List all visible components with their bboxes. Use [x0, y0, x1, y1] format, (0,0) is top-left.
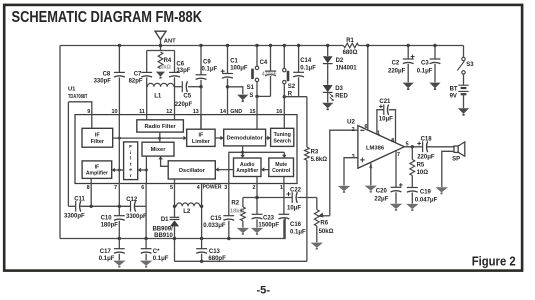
svg-text:10: 10 — [112, 109, 118, 115]
svg-text:C4: C4 — [260, 60, 268, 66]
wire U2 pin7 to C20 — [395, 151, 397, 187]
svg-text:7: 7 — [397, 152, 400, 158]
ground U2 pin4 — [365, 186, 377, 191]
wire pin10 internal column — [118, 115, 120, 170]
wire R6 wiper to U2 pin2 — [330, 130, 358, 216]
svg-text:Limiter: Limiter — [192, 139, 211, 145]
svg-text:82pF: 82pF — [129, 79, 143, 85]
wire pin 8 column — [90, 178, 92, 206]
wire pin 7 column — [118, 170, 120, 216]
wire top supply rail — [60, 45, 464, 47]
junction S2/pin16 node — [283, 95, 286, 98]
svg-text:BB910: BB910 — [154, 233, 173, 239]
svg-text:IF: IF — [95, 132, 101, 138]
wire Oscillator to Mixer — [158, 156, 168, 166]
svg-text:C13: C13 — [209, 249, 221, 255]
resistor R1 — [343, 38, 359, 56]
svg-text:C19: C19 — [420, 189, 432, 195]
capacitor C13 — [196, 239, 226, 263]
wire S1 node to C4 — [257, 95, 271, 97]
wire U2 pin3 to ground — [344, 158, 358, 186]
svg-text:RED: RED — [335, 94, 348, 100]
svg-text:S2: S2 — [288, 84, 296, 90]
ground under C19 — [406, 204, 418, 209]
block Tuning Search — [271, 128, 294, 146]
LED D3 RED — [323, 85, 349, 102]
block Mixer — [142, 142, 174, 156]
junction pin4 on bottom rail — [200, 237, 203, 240]
resistor R3 — [305, 97, 328, 198]
svg-text:4: 4 — [197, 185, 200, 191]
block IF Limiter — [187, 129, 215, 146]
svg-text:680pF: 680pF — [208, 256, 226, 262]
capacitor C21 — [377, 99, 396, 143]
svg-text:22μF: 22μF — [374, 197, 388, 203]
capacitor C20 — [374, 183, 402, 203]
svg-text:470pF: 470pF — [262, 72, 277, 78]
wire pin 11 column — [146, 115, 148, 120]
ground near pin14 GND — [237, 95, 248, 101]
junction pin10 column on IF chain — [118, 137, 121, 140]
svg-text:R5: R5 — [417, 163, 425, 169]
svg-text:Filter: Filter — [91, 139, 105, 145]
svg-text:5: 5 — [170, 185, 173, 191]
junction pin8 on bypass wire — [90, 205, 93, 208]
svg-text:D2: D2 — [336, 58, 344, 64]
ground under C20 — [390, 204, 402, 209]
ground speaker return — [435, 187, 447, 192]
wire pin 16 column — [283, 97, 285, 129]
svg-text:Tuning: Tuning — [274, 132, 291, 138]
svg-text:BT: BT — [450, 86, 458, 92]
block Oscillator — [168, 161, 215, 179]
svg-text:Control: Control — [272, 168, 291, 174]
capacitor C5 — [175, 81, 202, 108]
wire speaker return — [442, 151, 454, 187]
ground U2 pin3 — [338, 186, 350, 191]
junction pin10 column end — [118, 169, 121, 172]
wire Demodulator output bus — [229, 146, 287, 184]
svg-text:Audio: Audio — [240, 162, 254, 168]
ground under R6 — [311, 243, 323, 248]
svg-text:Mixer: Mixer — [151, 147, 167, 153]
wire pin 13 column — [200, 115, 202, 130]
svg-text:C6: C6 — [176, 61, 184, 67]
svg-text:L2: L2 — [183, 209, 191, 215]
svg-text:R1: R1 — [346, 38, 354, 44]
junction output node — [411, 145, 414, 148]
svg-text:S: S — [249, 93, 253, 99]
svg-text:0.1μF: 0.1μF — [153, 256, 169, 262]
resistor R5 — [410, 147, 428, 188]
svg-text:C12: C12 — [126, 197, 138, 203]
svg-text:R3: R3 — [311, 149, 319, 155]
svg-text:0.1μF: 0.1μF — [300, 66, 316, 72]
junction C1/pin14 with ground branch — [226, 85, 229, 88]
svg-text:R4: R4 — [164, 58, 172, 64]
potentiometer R6 — [314, 198, 333, 243]
svg-text:r: r — [130, 173, 132, 179]
switch S1 — [247, 44, 259, 99]
wire IF Limiter to Demodulator — [215, 136, 224, 140]
svg-text:10μF: 10μF — [287, 205, 301, 211]
svg-text:IF: IF — [199, 132, 204, 138]
svg-text:12: 12 — [166, 109, 172, 115]
wire R3 to ground bus — [306, 198, 308, 262]
svg-text:ANT: ANT — [164, 38, 176, 44]
svg-text:13: 13 — [193, 109, 199, 115]
junction L2 right on pin4 column — [200, 205, 203, 208]
svg-text:1: 1 — [280, 185, 283, 191]
svg-text:C5: C5 — [183, 94, 191, 100]
svg-text:0.1μF: 0.1μF — [290, 229, 306, 235]
svg-text:18kΩ: 18kΩ — [230, 208, 244, 214]
svg-text:LM386: LM386 — [366, 145, 385, 151]
capacitor C15 — [203, 216, 234, 239]
svg-text:680Ω: 680Ω — [343, 50, 358, 56]
svg-text:Amplifier: Amplifier — [236, 168, 258, 174]
svg-text:Amplifier: Amplifier — [86, 171, 108, 177]
svg-text:C*: C* — [153, 249, 160, 255]
ground under C23 — [251, 228, 263, 233]
wire tank loop top — [147, 50, 175, 52]
svg-text:Demodulator: Demodulator — [226, 136, 263, 142]
wire bottom supply rail — [60, 218, 285, 238]
svg-text:R2: R2 — [231, 201, 239, 207]
ground under battery — [458, 108, 469, 114]
wire pin 6 column — [145, 184, 147, 239]
svg-text:SP: SP — [452, 156, 460, 162]
wire detector node to ground — [228, 87, 243, 94]
block Demodulator — [224, 129, 266, 146]
svg-text:10μF: 10μF — [379, 117, 393, 123]
capacitor C11 — [64, 197, 86, 220]
wire pin 2 column — [256, 177, 258, 215]
svg-text:BB909/: BB909/ — [152, 226, 173, 232]
svg-text:1500pF: 1500pF — [258, 223, 279, 229]
IC U1 TDA7088T outline — [68, 87, 297, 184]
svg-text:2: 2 — [352, 127, 355, 133]
svg-text:R6: R6 — [320, 220, 328, 226]
inductor L1 — [147, 83, 173, 99]
ground under C3 — [429, 83, 440, 89]
wire pin 15 column — [256, 96, 258, 129]
junction C9/pin13 with detector wire — [199, 85, 202, 88]
battery BT 9V — [450, 74, 469, 108]
svg-text:8: 8 — [87, 185, 90, 191]
junction antenna/top rail — [159, 44, 162, 47]
svg-text:GND: GND — [230, 109, 242, 115]
op-amp U2 LM386 — [347, 118, 404, 168]
ground under D3 — [322, 103, 333, 109]
svg-text:C16: C16 — [290, 222, 302, 228]
junction Mixer column — [145, 169, 148, 172]
svg-text:0.1μF: 0.1μF — [202, 67, 218, 73]
svg-text:C23: C23 — [263, 215, 275, 221]
block Mute Control — [269, 158, 294, 177]
svg-text:e: e — [129, 168, 132, 173]
svg-text:SCHEMATIC DIAGRAM FM-88K: SCHEMATIC DIAGRAM FM-88K — [12, 9, 203, 26]
capacitor C7 — [129, 51, 153, 115]
svg-text:8: 8 — [391, 138, 394, 144]
svg-text:14: 14 — [220, 109, 226, 115]
junction D1 on bottom rail — [173, 237, 176, 240]
svg-text:220μF: 220μF — [417, 154, 435, 160]
svg-text:3: 3 — [224, 185, 227, 191]
svg-text:D1: D1 — [161, 217, 169, 223]
svg-text:C15: C15 — [210, 216, 222, 222]
capacitor C14 — [293, 44, 316, 97]
wire Mixer column to Filter — [138, 156, 147, 183]
capacitor C1 — [221, 44, 248, 115]
svg-text:C3: C3 — [421, 61, 429, 67]
svg-text:Oscillator: Oscillator — [179, 168, 206, 174]
svg-text:2: 2 — [253, 185, 256, 191]
capacitor C10 — [101, 216, 125, 239]
svg-text:50kΩ: 50kΩ — [319, 229, 334, 235]
junction pin3 on bottom rail — [227, 237, 230, 240]
wire pin 5 column — [174, 179, 176, 217]
wire Mute Control to Audio Amplifier — [261, 167, 269, 171]
junction pin7 on bottom rail — [118, 237, 121, 240]
svg-text:Figure 2: Figure 2 — [472, 253, 516, 268]
svg-text:C17: C17 — [100, 249, 112, 255]
svg-text:F: F — [129, 144, 132, 150]
svg-text:11: 11 — [139, 109, 145, 115]
wire left supply rail — [59, 46, 61, 239]
wire Radio Filter to Mixer — [159, 132, 161, 142]
wire S2 node to R3 riser — [284, 96, 307, 98]
svg-text:S3: S3 — [466, 62, 474, 68]
capacitor C3 — [417, 44, 441, 83]
svg-text:C18: C18 — [421, 137, 433, 143]
capacitor C16 — [279, 214, 307, 238]
svg-text:180pF: 180pF — [101, 223, 119, 229]
svg-text:9V: 9V — [450, 93, 457, 99]
svg-text:33pF: 33pF — [176, 68, 190, 74]
block IF Amplifier — [82, 161, 112, 179]
svg-text:10Ω: 10Ω — [417, 170, 429, 176]
junction pin6 supply on rail — [366, 44, 369, 47]
wire U2 output — [404, 146, 454, 148]
wire ground bus rail — [175, 260, 307, 262]
svg-text:1N4001: 1N4001 — [336, 66, 358, 72]
junction pin7 on bypass wire — [118, 205, 121, 208]
svg-text:TDA7088T: TDA7088T — [68, 94, 88, 100]
capacitor C4 — [260, 44, 277, 97]
block IF Filter — [82, 128, 113, 147]
wire pin 1 column — [283, 177, 285, 215]
ground under R2 — [237, 228, 249, 233]
capacitor C9 — [196, 44, 218, 129]
svg-text:-5-: -5- — [256, 284, 270, 296]
varactor D1 BB909/BB910 — [152, 217, 179, 261]
svg-text:D3: D3 — [335, 86, 343, 92]
capacitor C-star — [141, 239, 169, 263]
wire Demodulator to Tuning Search — [266, 136, 271, 140]
wire U2 supply pin6 — [367, 46, 369, 131]
svg-text:S1: S1 — [247, 85, 255, 91]
capacitor C8 — [94, 44, 125, 115]
svg-text:C2: C2 — [392, 61, 400, 67]
svg-text:U2: U2 — [347, 118, 355, 125]
wire pin 12 column — [174, 115, 176, 120]
svg-text:0.1μF: 0.1μF — [99, 256, 115, 262]
diode D2 1N4001 — [323, 44, 357, 85]
junction Demodulator bus — [241, 151, 244, 154]
resistor R2 — [230, 198, 245, 228]
wire Filter to IF Amplifier — [112, 168, 124, 172]
svg-text:IF: IF — [95, 164, 100, 170]
capacitor C6 — [169, 51, 191, 115]
svg-text:7: 7 — [114, 185, 117, 191]
svg-text:0.033μF: 0.033μF — [203, 223, 226, 229]
capacitor C19 — [407, 188, 438, 204]
svg-text:100μF: 100μF — [230, 66, 248, 72]
ground under R4 — [156, 72, 165, 77]
junction L2 left on pin5 column — [173, 205, 176, 208]
capacitor C18 — [417, 137, 435, 161]
svg-text:C9: C9 — [203, 59, 211, 65]
wire IF Filter to IF Limiter — [113, 136, 187, 140]
antenna ANT — [155, 31, 176, 50]
svg-text:220pF: 220pF — [175, 102, 193, 108]
inductor L2 — [176, 203, 199, 215]
svg-text:C14: C14 — [300, 58, 312, 64]
svg-text:330pF: 330pF — [94, 79, 112, 85]
svg-text:POWER: POWER — [203, 185, 222, 191]
junction S1/pin15 node — [255, 95, 258, 98]
ground under C17 — [113, 261, 125, 266]
wire pin 4 column — [201, 184, 203, 239]
ground under C2 — [403, 83, 414, 89]
wire audio node — [243, 197, 317, 199]
svg-text:15: 15 — [250, 109, 256, 115]
block Audio Amplifier — [234, 158, 262, 177]
svg-text:C7: C7 — [134, 72, 142, 78]
svg-text:220μF: 220μF — [388, 69, 406, 75]
svg-text:C1: C1 — [230, 59, 238, 65]
svg-text:Search: Search — [273, 138, 291, 144]
wire U2 pin4 to ground — [370, 162, 372, 185]
svg-text:0.047μF: 0.047μF — [415, 197, 438, 203]
svg-text:C11: C11 — [74, 197, 85, 203]
block Radio Filter — [137, 120, 184, 132]
svg-text:U1: U1 — [68, 87, 76, 93]
junction C13 on ground bus — [200, 260, 203, 263]
svg-text:C21: C21 — [379, 99, 391, 105]
block Filter vertical — [124, 142, 138, 180]
svg-text:C22: C22 — [290, 187, 302, 193]
resistor R4 — [158, 52, 172, 71]
svg-text:C20: C20 — [376, 189, 388, 195]
svg-text:5.6kΩ: 5.6kΩ — [311, 157, 328, 163]
capacitor C17 — [99, 239, 125, 263]
svg-text:Mute: Mute — [275, 162, 287, 168]
wire C11 C12 bypass — [68, 102, 146, 207]
speaker SP — [452, 142, 465, 163]
switch S2 — [283, 44, 296, 98]
svg-text:9: 9 — [87, 109, 90, 115]
svg-text:3300pF: 3300pF — [126, 214, 147, 220]
wire pin 9 column — [68, 102, 91, 129]
wire pin 3 column — [228, 184, 230, 216]
svg-text:0.1μF: 0.1μF — [417, 69, 433, 75]
svg-text:6: 6 — [141, 185, 144, 191]
junction pin6 on bottom rail — [144, 237, 147, 240]
svg-text:Radio Filter: Radio Filter — [144, 124, 176, 130]
svg-text:3300pF: 3300pF — [64, 214, 85, 220]
svg-text:6: 6 — [365, 124, 368, 130]
svg-text:L1: L1 — [154, 94, 162, 100]
switch S3 — [457, 46, 474, 75]
capacitor C22 — [287, 187, 302, 211]
svg-text:1kΩ: 1kΩ — [160, 65, 171, 71]
capacitor C12 — [126, 197, 147, 220]
svg-text:C8: C8 — [103, 72, 111, 78]
ground under C-star — [140, 261, 152, 266]
junction pin2 on audio wire — [255, 196, 258, 199]
svg-text:C10: C10 — [101, 216, 113, 222]
wire Audio Amplifier to Oscillator — [215, 167, 233, 171]
capacitor C2 — [388, 44, 415, 83]
capacitor C23 — [252, 214, 280, 228]
junction Radio Filter stub — [158, 137, 161, 140]
svg-text:16: 16 — [276, 109, 282, 115]
